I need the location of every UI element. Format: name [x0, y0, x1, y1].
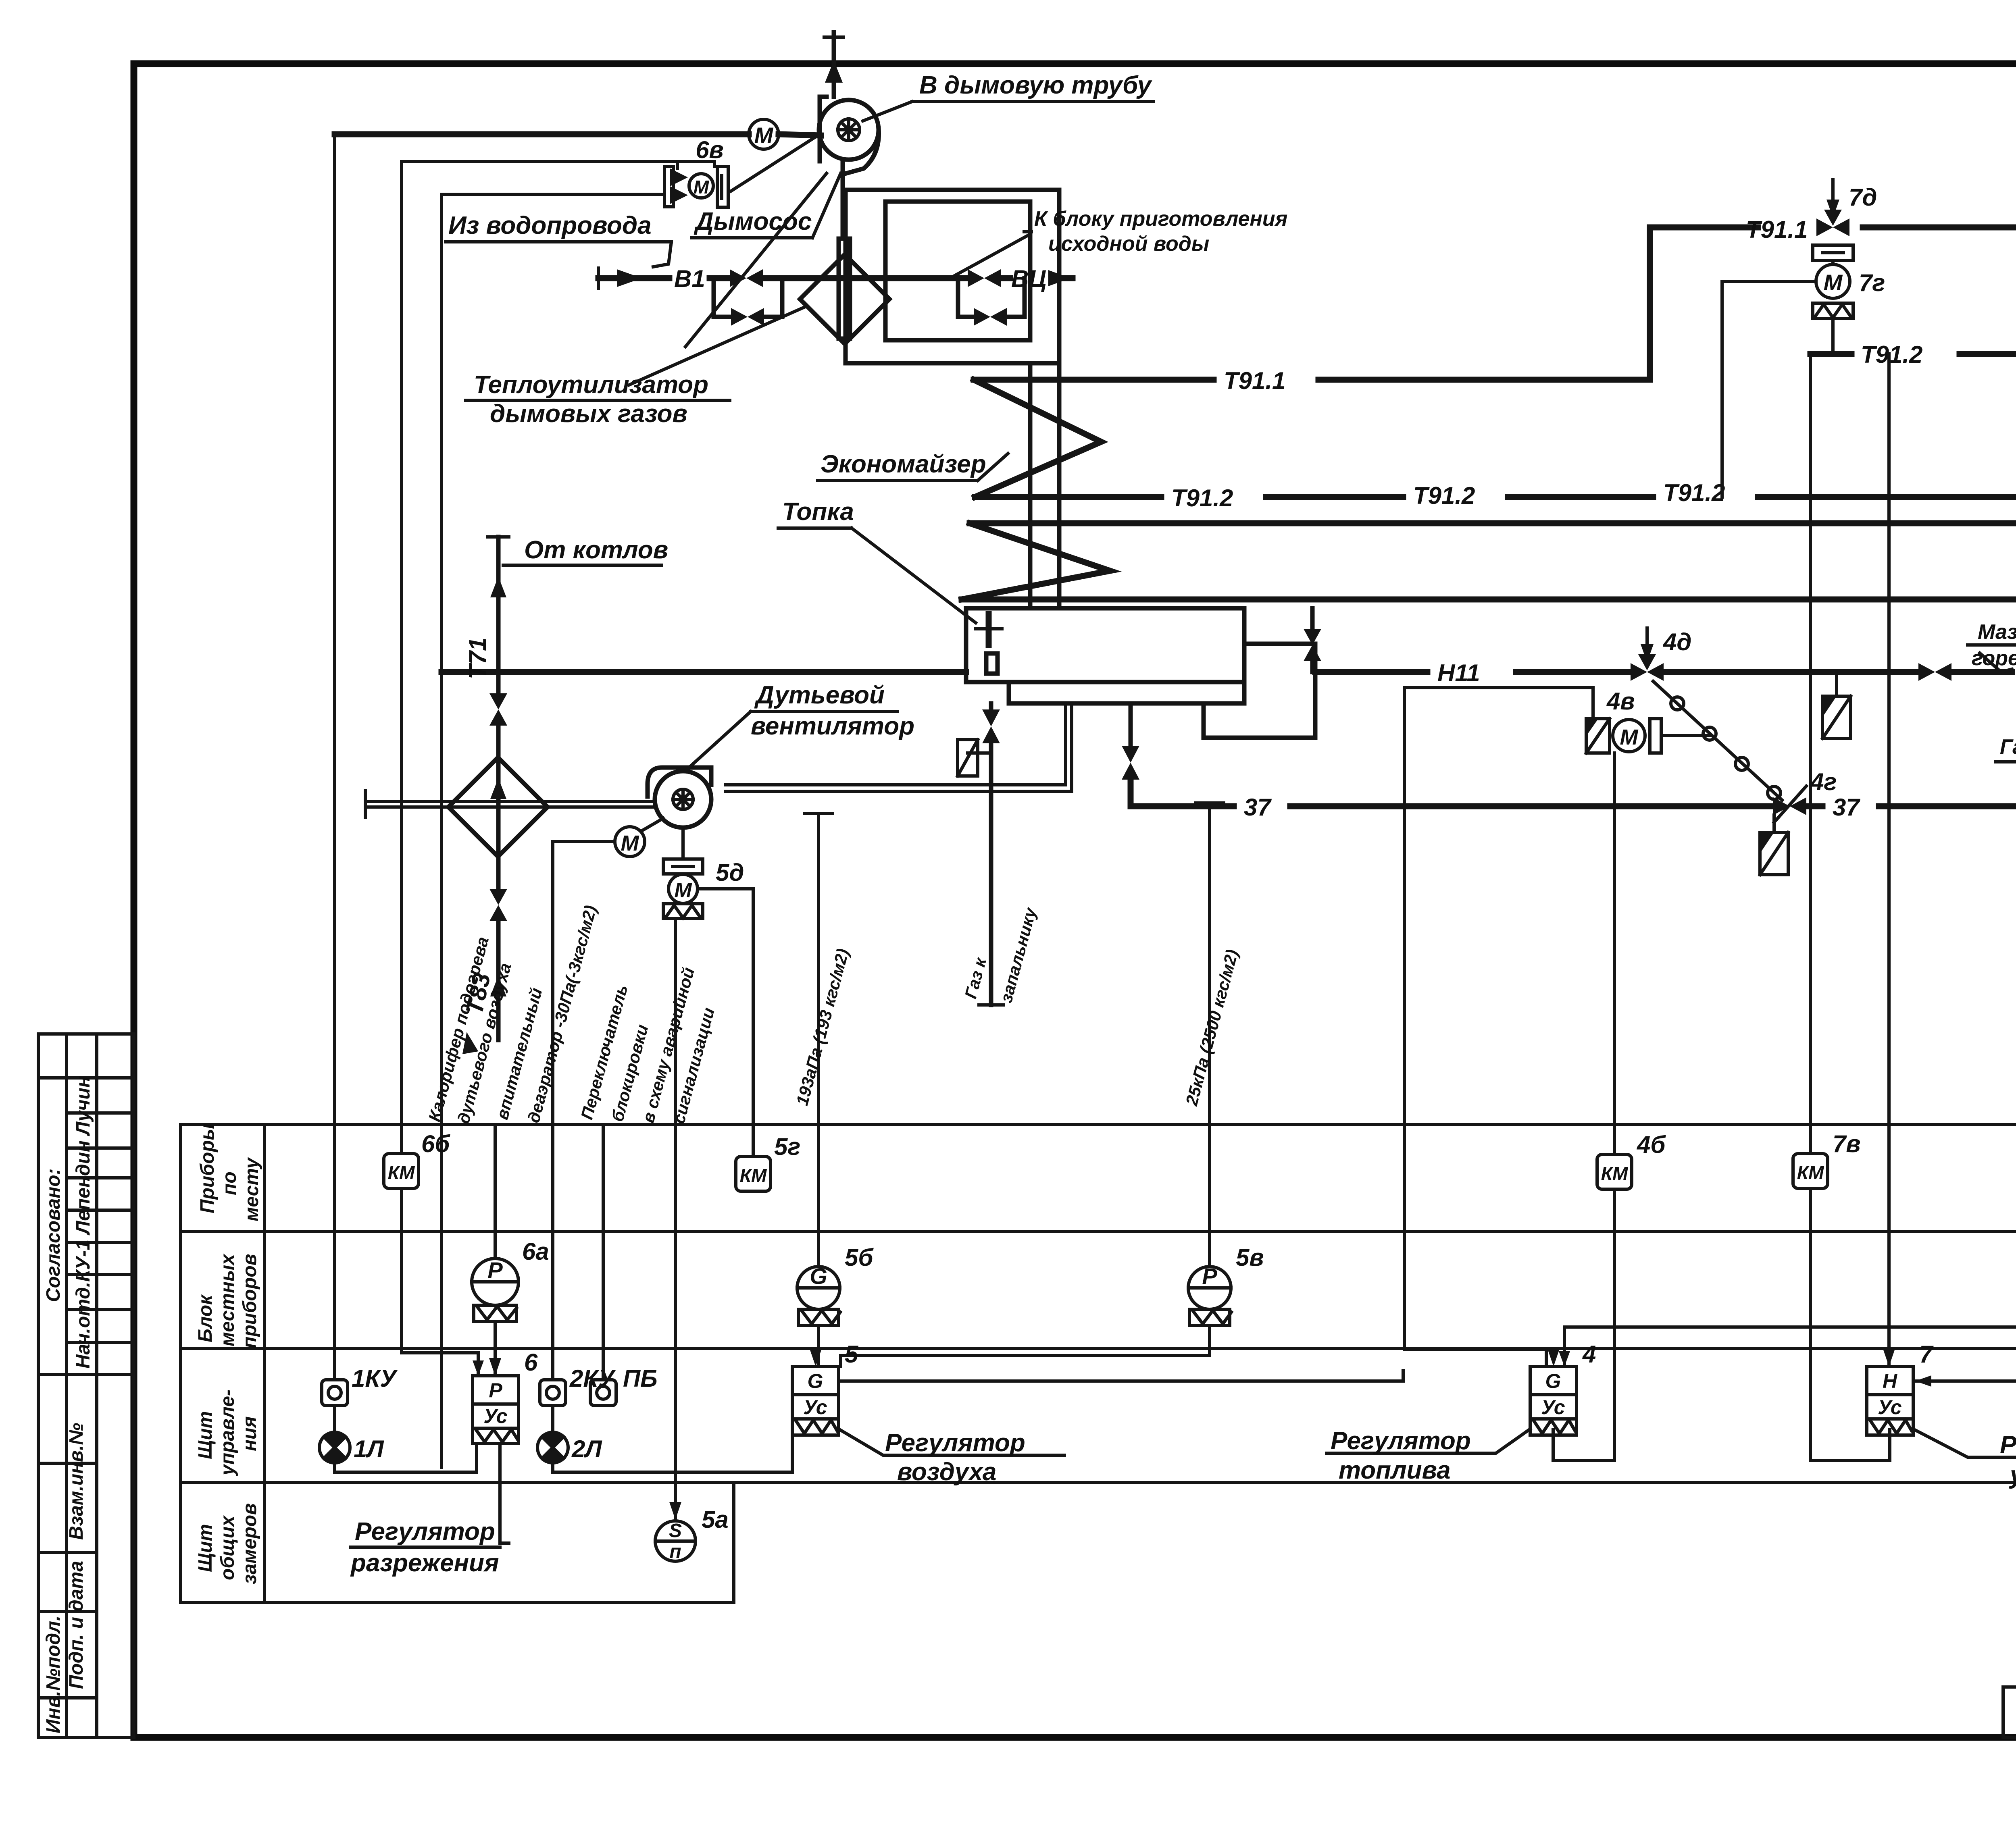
svg-text:Теплоутилизатор: Теплоутилизатор	[474, 371, 708, 399]
table row label: Щит общих замеров	[195, 1503, 260, 1584]
svg-text:Регулятор: Регулятор	[885, 1429, 1025, 1457]
regulator разрежения leader	[350, 1444, 509, 1577]
smoke exhauster suction line	[335, 134, 821, 135]
boiler drum feed line	[970, 481, 2016, 523]
svg-text:Щит: Щит	[195, 1411, 216, 1459]
svg-text:37: 37	[1244, 794, 1272, 821]
label 5б	[845, 1244, 874, 1271]
blow fan motor M	[615, 818, 663, 857]
label T91.1 on economizer line	[1224, 367, 1285, 394]
svg-text:ПБ: ПБ	[623, 1365, 658, 1392]
regulator box 4	[1530, 1349, 1577, 1435]
svg-text:Р: Р	[1202, 1263, 1217, 1289]
label 5	[845, 1341, 859, 1368]
svg-text:37: 37	[1833, 794, 1860, 821]
svg-text:уровня: уровня	[2009, 1461, 2016, 1489]
regulator box 6	[473, 1358, 519, 1444]
corner line from water side to furnace	[440, 194, 443, 672]
signal drop to regulator 7	[1887, 354, 1891, 1367]
leader регулятор воздуха	[839, 1429, 1064, 1486]
svg-text:Т91.2: Т91.2	[1413, 482, 1475, 509]
label 7г	[1859, 269, 1885, 296]
blow fan (Дутьевой вентилятор)	[648, 768, 711, 828]
svg-text:управле-: управле-	[217, 1390, 238, 1476]
bypass loop with valve inside water block	[958, 278, 1025, 326]
svg-text:G: G	[808, 1370, 823, 1392]
label 6	[524, 1349, 538, 1376]
gas pressure tap 25kPa	[1195, 803, 1224, 1266]
wire from 5д to panel	[698, 889, 753, 1154]
svg-text:7д: 7д	[1849, 184, 1877, 211]
valve 6в with motor on exhauster duct	[664, 166, 728, 207]
svg-text:Инв.№подл.: Инв.№подл.	[43, 1616, 64, 1733]
label 7	[1919, 1341, 1934, 1368]
air duct from blow fan to furnace	[726, 703, 1072, 791]
label 4д	[1663, 628, 1691, 655]
svg-text:1КУ: 1КУ	[352, 1365, 398, 1392]
vacuum instrument 5а	[655, 1483, 696, 1562]
svg-text:6б: 6б	[421, 1130, 450, 1157]
valve actuator 4в	[1586, 719, 1710, 753]
air pressure tap 193aPa	[804, 813, 833, 1266]
table row label: Блок местных приборов	[195, 1253, 260, 1348]
smoke stack outlet arrow	[824, 32, 843, 97]
key button 2КУ	[540, 1380, 566, 1406]
KM box 7в	[1793, 1154, 1828, 1188]
svg-text:5в: 5в	[1236, 1244, 1264, 1271]
steam line T91.2 to drum	[1810, 354, 2016, 497]
wire from actuator 7г to panel	[1722, 281, 1816, 497]
svg-text:М: М	[621, 831, 639, 855]
label Экономайзер	[818, 450, 1008, 481]
smoke exhauster fan (Дымосос)	[819, 97, 879, 174]
economizer coil upper zigzag	[974, 380, 1101, 497]
rotated label 193аПа	[792, 946, 852, 1107]
label 4	[1582, 1341, 1596, 1368]
heating line T71 from boilers	[488, 537, 509, 857]
wire from blow fan motor to panel	[553, 842, 615, 1380]
svg-text:7г: 7г	[1859, 269, 1885, 296]
valve 4г on gas line	[1773, 786, 1806, 822]
label 5г	[774, 1133, 800, 1160]
label Дымосос	[691, 173, 841, 238]
svg-text:5: 5	[845, 1341, 859, 1368]
linkage chain 4д-4г	[1653, 681, 1782, 800]
label 4в	[1606, 688, 1635, 715]
svg-text:1Л: 1Л	[354, 1435, 384, 1462]
svg-text:КМ: КМ	[740, 1165, 767, 1186]
svg-text:4д: 4д	[1663, 628, 1691, 655]
wire lamp 1Л to regulator 6	[335, 1444, 477, 1472]
rotated label Газ к запальнику	[961, 905, 1040, 1005]
label 2КУ	[569, 1365, 616, 1392]
svg-text:М: М	[674, 879, 692, 902]
svg-text:4г: 4г	[1810, 768, 1837, 795]
svg-text:4б: 4б	[1637, 1131, 1666, 1158]
air suction line through heater	[365, 791, 656, 817]
svg-text:Приборы: Приборы	[197, 1123, 218, 1213]
gas igniter line	[979, 703, 1003, 1005]
svg-text:Нач.отд.КУ-1 Лепендин Лучин: Нач.отд.КУ-1 Лепендин Лучин	[73, 1076, 94, 1369]
svg-text:В дымовую трубу: В дымовую трубу	[919, 71, 1153, 99]
instrument 5б flow	[797, 1263, 840, 1367]
heat utilizer diamond	[800, 239, 889, 344]
label 4б	[1637, 1131, 1666, 1158]
svg-text:Газ к горелке: Газ к горелке	[2000, 735, 2016, 759]
label 5а	[702, 1506, 729, 1533]
mazut line H11	[442, 653, 2012, 672]
svg-text:Ус: Ус	[1878, 1396, 1901, 1419]
condensate line T83 below heater	[489, 857, 507, 1040]
label 6а	[522, 1238, 549, 1265]
svg-text:Подп. и дата: Подп. и дата	[66, 1561, 87, 1689]
wire regulator 5 to regulator 4 row	[841, 1371, 1403, 1381]
table row label: Приборы по месту	[197, 1123, 262, 1221]
svg-text:Т91.1: Т91.1	[1224, 367, 1285, 394]
svg-text:Ус: Ус	[483, 1405, 507, 1427]
solenoid on igniter line	[958, 740, 991, 776]
furnace label Топка	[778, 498, 976, 623]
svg-text:Н11: Н11	[1437, 659, 1480, 686]
svg-text:Т91.2: Т91.2	[1171, 485, 1233, 512]
boiler bank lower zigzag	[962, 523, 1110, 599]
svg-text:5г: 5г	[774, 1133, 800, 1160]
control valve 4д three-way	[1631, 628, 1664, 681]
svg-text:4: 4	[1582, 1341, 1596, 1368]
svg-text:4в: 4в	[1606, 688, 1635, 715]
label B1	[674, 265, 705, 292]
svg-text:Блок: Блок	[195, 1294, 216, 1342]
svg-text:КМ: КМ	[1797, 1162, 1824, 1183]
label 4г	[1810, 768, 1837, 795]
label Мазут к горелке	[1968, 620, 2016, 670]
KM box 5г	[736, 1157, 771, 1191]
svg-text:Дутьевой: Дутьевой	[754, 681, 885, 709]
svg-text:Н: Н	[1883, 1370, 1897, 1392]
regulator box 5	[792, 1349, 839, 1435]
svg-text:В1: В1	[674, 265, 705, 292]
rotated label Переключатель блокировки	[577, 965, 718, 1125]
rotated label Калорифер подогрева дутьевого воздуха	[425, 935, 515, 1126]
labels T91.2 on economizer outlet line	[1171, 479, 1725, 512]
actuator 5д	[663, 828, 703, 919]
KM box 6б	[384, 1154, 419, 1188]
svg-text:6в: 6в	[696, 136, 724, 163]
approval stamp column	[38, 1034, 134, 1737]
table row label: Щит управления	[195, 1390, 260, 1476]
labels 37	[1244, 794, 1860, 821]
rotated label T71	[464, 638, 491, 679]
instrument 7а level	[1915, 1257, 2016, 1387]
svg-text:Щит: Щит	[195, 1524, 216, 1572]
signal line from 37 riser to regulator 4	[1404, 688, 1546, 1367]
svg-text:Т91.1: Т91.1	[1746, 216, 1808, 243]
svg-text:разрежения: разрежения	[350, 1549, 499, 1577]
wire corner to valve 6в	[402, 137, 815, 194]
label Газ к горелке	[1996, 735, 2016, 762]
svg-text:К блоку приготовления: К блоку приготовления	[1034, 207, 1287, 231]
svg-text:Мазут к: Мазут к	[1978, 620, 2016, 644]
bypass loop with valve under B1	[714, 278, 782, 326]
label Из водопровода	[446, 212, 671, 267]
svg-text:7: 7	[1919, 1341, 1934, 1368]
control valve 7д three-way	[1816, 179, 1849, 236]
valve on furnace right riser	[1304, 608, 1321, 672]
svg-text:6а: 6а	[522, 1238, 549, 1265]
rotated label Т83 with arrow	[459, 971, 496, 1054]
svg-text:общих: общих	[217, 1515, 238, 1580]
valve under furnace on gas riser	[1122, 703, 1139, 780]
svg-text:горелке: горелке	[1972, 647, 2016, 670]
label 6в	[696, 136, 724, 163]
steam line T91.1 from heat utilizer	[974, 377, 1650, 383]
shutoff valve on mazut line	[1918, 663, 1951, 681]
solenoid valve block on gas line	[1760, 815, 1788, 875]
svg-text:по: по	[219, 1171, 240, 1195]
wire 5д drop to 5а	[674, 919, 677, 1483]
svg-text:5д: 5д	[716, 859, 744, 886]
furnace box	[966, 608, 1315, 738]
svg-text:воздуха: воздуха	[897, 1458, 996, 1486]
svg-text:Экономайзер: Экономайзер	[821, 450, 986, 478]
leader регулятор топлива	[1327, 1427, 1530, 1484]
label H11	[1437, 659, 1480, 686]
air heater (калорифер) diamond	[448, 757, 548, 857]
key button ПБ	[590, 1125, 616, 1406]
svg-text:исходной воды: исходной воды	[1048, 232, 1209, 256]
label 2Л	[571, 1435, 602, 1462]
KM box 4б	[1597, 1154, 1632, 1189]
svg-text:Из водопровода: Из водопровода	[448, 212, 652, 239]
svg-text:ния: ния	[239, 1416, 260, 1451]
svg-text:5а: 5а	[702, 1506, 729, 1533]
rotated label впитательный деаэратор	[492, 903, 600, 1125]
svg-text:местных: местных	[217, 1253, 238, 1346]
label 5в	[1236, 1244, 1264, 1271]
label: К блоку приготовления исходной воды	[952, 207, 1287, 277]
motor M of smoke exhauster	[749, 119, 779, 149]
svg-text:Р: Р	[489, 1379, 502, 1402]
valve ВЦ on line B1	[968, 269, 1001, 287]
svg-text:Согласовано:: Согласовано:	[43, 1168, 64, 1302]
label 7д	[1849, 184, 1877, 211]
svg-text:6: 6	[524, 1349, 538, 1376]
svg-text:Т71: Т71	[464, 638, 491, 679]
signal lamp 1Л	[319, 1406, 350, 1463]
label ВЦ1	[1011, 265, 1046, 292]
svg-text:Ус: Ус	[1541, 1396, 1565, 1419]
gas line 37	[1131, 778, 2016, 815]
svg-text:5б: 5б	[845, 1244, 874, 1271]
long signal drop line	[440, 672, 443, 1467]
svg-text:М: М	[1620, 725, 1639, 749]
svg-text:КМ: КМ	[1601, 1163, 1629, 1184]
svg-text:G: G	[1545, 1370, 1561, 1392]
instrument 5в pressure	[841, 1263, 1231, 1367]
svg-text:S: S	[669, 1520, 682, 1541]
svg-text:М: М	[754, 123, 774, 148]
water preparation block box	[846, 190, 1059, 363]
svg-text:Регулятор: Регулятор	[1331, 1427, 1471, 1455]
wire from fan volute down-left to Дымосос label	[685, 173, 827, 347]
label T91.1 at control valve	[1746, 216, 1808, 243]
label Дутьевой вентилятор	[685, 681, 914, 771]
key button 1КУ	[322, 1380, 348, 1406]
svg-text:Взам.инв.№: Взам.инв.№	[66, 1423, 87, 1540]
svg-text:Регулятор: Регулятор	[2000, 1431, 2016, 1459]
label: Теплоутилизатор дымовых газов	[466, 307, 804, 428]
svg-text:КМ: КМ	[388, 1162, 415, 1183]
signal drop from T91.2 to KM 7в	[1810, 497, 1890, 1460]
svg-text:топлива: топлива	[1339, 1456, 1451, 1484]
svg-text:замеров: замеров	[239, 1503, 260, 1584]
lower drum connection line	[962, 597, 2016, 603]
svg-text:Ус: Ус	[803, 1396, 827, 1419]
svg-text:дымовых газов: дымовых газов	[490, 400, 687, 428]
actuator 7г	[1813, 245, 1853, 354]
regulator box 7	[1867, 1349, 1913, 1435]
solenoid valve block on mazut line	[1822, 672, 1851, 738]
flue duct from fan down to economizer	[843, 161, 1059, 608]
svg-text:Регулятор: Регулятор	[355, 1518, 495, 1546]
valve on line B1	[730, 269, 763, 287]
title block	[2003, 1687, 2016, 1739]
wire from riser to actuator 4в	[1404, 688, 1593, 719]
label От котлов	[503, 536, 668, 565]
svg-text:М: М	[694, 177, 710, 198]
wire lamp 2Л to regulator 5	[553, 1435, 792, 1472]
svg-text:М: М	[1824, 270, 1843, 295]
svg-text:Т91.2: Т91.2	[1663, 479, 1725, 506]
svg-text:От котлов: От котлов	[524, 536, 668, 564]
leader регулятор уровня	[1913, 1429, 2016, 1489]
svg-text:месту: месту	[241, 1157, 262, 1221]
steam header line to valve 7д	[1650, 214, 2016, 380]
instrument 6а pressure	[472, 1125, 519, 1376]
svg-text:Топка: Топка	[782, 498, 854, 526]
label 5д	[716, 859, 744, 886]
label 1КУ	[352, 1365, 398, 1392]
label T91.2 at drum line	[1861, 341, 1922, 368]
svg-text:приборов: приборов	[239, 1254, 260, 1348]
instrument location table	[181, 1125, 2016, 1602]
rotated label 25кПа	[1182, 947, 1242, 1108]
burner mark in furnace	[976, 614, 1002, 674]
signal drop from 4в to KM 4б	[1553, 753, 1614, 1460]
svg-text:вентилятор: вентилятор	[751, 712, 914, 740]
svg-text:2Л: 2Л	[571, 1435, 602, 1462]
svg-text:Т91.2: Т91.2	[1861, 341, 1922, 368]
label ПБ	[623, 1365, 658, 1392]
label 6б	[421, 1130, 450, 1157]
water line B1	[598, 268, 1073, 288]
panel drop from water line	[333, 134, 336, 1380]
instrument 4а pressure	[1559, 1255, 2016, 1367]
steam line T91.2 from economizer	[975, 470, 2016, 497]
label 1Л	[354, 1435, 384, 1462]
label 7в	[1833, 1130, 1861, 1157]
signal lamp 2Л	[537, 1406, 568, 1463]
svg-text:п: п	[669, 1541, 681, 1562]
label: В дымовую трубу	[863, 71, 1153, 121]
svg-text:G: G	[810, 1263, 827, 1289]
panel drop to KM 6б	[402, 162, 484, 1376]
svg-text:Р: Р	[487, 1257, 503, 1283]
svg-text:7в: 7в	[1833, 1130, 1861, 1157]
